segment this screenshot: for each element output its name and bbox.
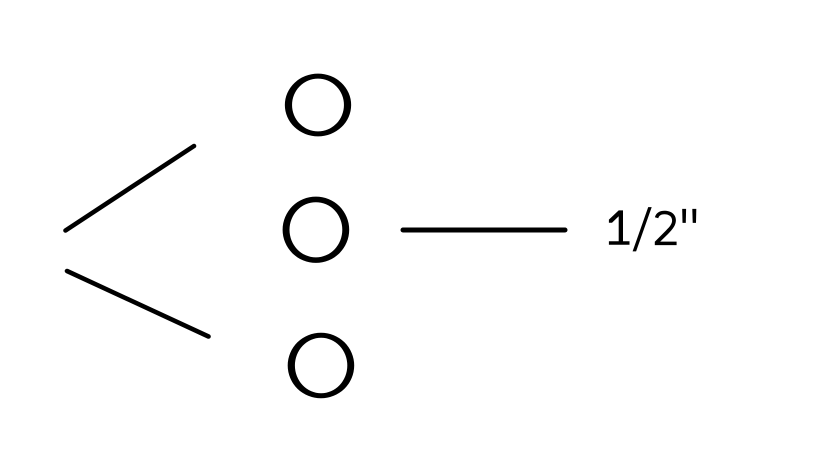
circle bottom	[288, 333, 355, 399]
glyph 2	[655, 211, 677, 245]
label 1/2"	[609, 207, 696, 251]
glyph double-quote	[682, 209, 686, 223]
line horizontal pointer	[403, 228, 565, 233]
line upper-left diagonal	[66, 146, 195, 231]
circle middle	[283, 197, 350, 263]
line lower-left diagonal	[67, 271, 209, 337]
glyph slash	[633, 207, 652, 251]
circle top	[285, 74, 351, 137]
glyph 1	[609, 210, 630, 244]
